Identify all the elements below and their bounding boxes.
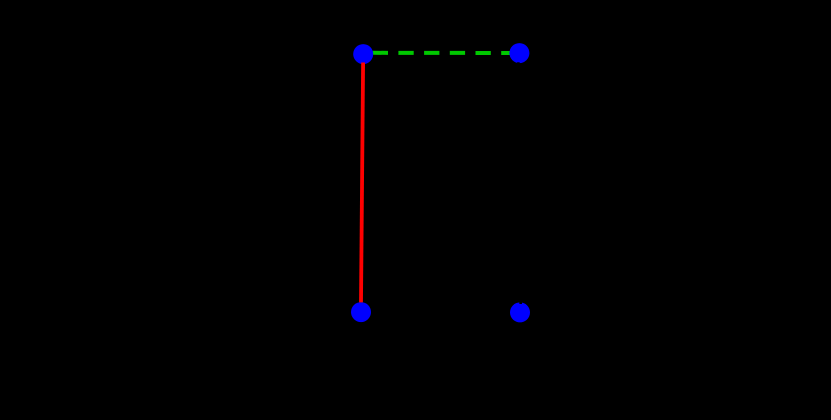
edge black (node2 to node4, visible only as notches over nodes) [518, 62, 520, 304]
node 1 top-left [353, 44, 373, 64]
edge green dashed (node1 to node2) [373, 51, 520, 55]
edge red (node1 to node3) [361, 63, 363, 303]
node 3 bottom-left [351, 302, 371, 322]
node 4 bottom-right [510, 302, 530, 322]
node 2 top-right [509, 43, 529, 63]
